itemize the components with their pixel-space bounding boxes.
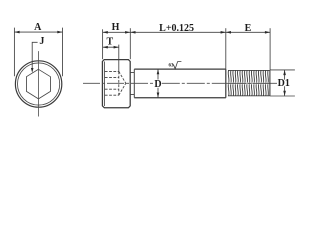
dimension L extension/dimension line [130, 31, 226, 33]
extension line at head bearing face [129, 28, 131, 59]
svg-text:H: H [112, 22, 120, 33]
socket bottom hidden line [118, 71, 120, 95]
dimension T extension line (socket depth) [118, 45, 120, 73]
thread crest top line [228, 69, 270, 71]
centerline across thread [228, 82, 270, 84]
dimension H line [103, 31, 131, 33]
thread [228, 70, 268, 96]
svg-text:D: D [154, 79, 161, 90]
thread end face [269, 70, 271, 96]
dimension A extension lines [14, 28, 62, 77]
J leader line [32, 42, 37, 68]
svg-text:63: 63 [169, 64, 175, 69]
svg-text:L+0.125: L+0.125 [159, 23, 194, 34]
dimension E line [226, 31, 270, 33]
thread mid lighten band [228, 82, 270, 85]
socket drill point hidden lines [119, 71, 126, 95]
dimension H arrowheads [103, 31, 108, 34]
thread crest bottom line [228, 95, 270, 97]
shoulder bottom line [134, 97, 226, 99]
svg-text:E: E [245, 23, 252, 34]
end view inner chamfer circle [17, 63, 59, 105]
hex socket hidden lines [105, 71, 119, 95]
dimension H extension line left [102, 29, 104, 59]
dimension A arrowheads [14, 31, 19, 34]
end view outer circle (head diameter A) [15, 61, 61, 107]
dimension A line [14, 31, 62, 33]
L+0.125 arrowheads [130, 31, 135, 34]
J leader arrowhead [31, 68, 34, 73]
dimension T arrowheads [103, 46, 108, 49]
svg-text:D1: D1 [278, 78, 290, 89]
dimension T line [103, 46, 119, 48]
vertical centerline of end view [38, 51, 40, 116]
extension line at thread end [269, 28, 271, 70]
svg-text:A: A [34, 22, 42, 33]
horizontal centerline [83, 82, 154, 84]
dimension E arrowheads [226, 31, 231, 34]
dimension D line with arrows [157, 69, 159, 97]
relief groove wall [133, 69, 135, 97]
shoulder end face [225, 69, 227, 98]
dimension D1 line with arrows [284, 70, 286, 96]
svg-text:J: J [39, 36, 44, 47]
hex socket (end view) [26, 69, 50, 99]
D1 extension lines [270, 70, 295, 96]
under-head relief groove [130, 73, 134, 95]
extension line at shoulder end [225, 28, 227, 69]
shoulder top line [134, 68, 226, 70]
svg-text:T: T [106, 36, 113, 47]
head outline (side view) [102, 60, 130, 108]
head face chamfer line [103, 62, 105, 107]
